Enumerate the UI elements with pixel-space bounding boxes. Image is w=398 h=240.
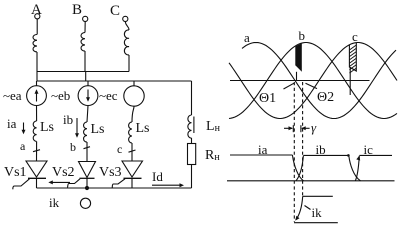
- wire Ls to node a: [36, 142, 38, 162]
- source ea: [27, 86, 47, 106]
- svg-text:b: b: [299, 28, 306, 43]
- svg-text:Ls: Ls: [136, 121, 150, 136]
- wire C terminal to coil: [125, 22, 129, 31]
- dashed line right: [302, 82, 304, 196]
- ib falling: [349, 155, 361, 180]
- current ib top: [303, 154, 348, 156]
- wire Ls to node c: [131, 143, 133, 161]
- current ia top: [230, 154, 292, 156]
- svg-text:γ: γ: [311, 120, 317, 135]
- ik leader: [305, 206, 311, 210]
- current baseline: [227, 180, 395, 182]
- gate Vs1: [13, 179, 30, 190]
- svg-text:ib: ib: [316, 142, 326, 157]
- inductor Ls phase b: [84, 122, 87, 142]
- svg-text:Id: Id: [152, 169, 163, 184]
- node b tick: [84, 147, 91, 149]
- wire A coil to bus: [36, 52, 38, 81]
- resistor Rh: [188, 144, 196, 165]
- svg-text:ic: ic: [364, 142, 374, 157]
- ib rising: [296, 156, 303, 181]
- gamma dimension right: [300, 125, 302, 132]
- wire C coil to bus: [128, 55, 130, 72]
- leader theta1: [284, 83, 295, 89]
- node a tick: [33, 150, 40, 152]
- svg-text:Vs1: Vs1: [4, 165, 27, 180]
- line below hatch: [349, 67, 351, 95]
- svg-text:ib: ib: [63, 112, 73, 127]
- arrow ik left: [50, 181, 70, 183]
- terminal B: [83, 16, 88, 21]
- source ec: [124, 86, 144, 106]
- inductor Ls phase c: [129, 122, 132, 143]
- wire ec to Ls: [132, 106, 134, 122]
- current ic top: [359, 154, 392, 156]
- inductor phase B: [81, 33, 85, 52]
- svg-text:Ls: Ls: [40, 120, 54, 135]
- sine wave ea: [242, 43, 396, 119]
- gamma dimension left: [284, 127, 292, 129]
- svg-text:a: a: [20, 139, 26, 153]
- svg-text:ik: ik: [49, 195, 60, 210]
- svg-text:Vs3: Vs3: [99, 165, 122, 180]
- svg-text:~eb: ~eb: [51, 88, 70, 103]
- thyristor Vs2: [79, 162, 96, 178]
- svg-text:c: c: [117, 142, 122, 156]
- line below black area: [296, 72, 298, 81]
- lower bus to load: [37, 80, 192, 82]
- neutral O: [80, 198, 90, 208]
- wire eb to Ls: [87, 106, 88, 123]
- svg-text:~ec: ~ec: [99, 88, 118, 103]
- upper bus: [37, 71, 129, 73]
- svg-text:~ea: ~ea: [3, 88, 22, 103]
- stub to source ec: [133, 81, 135, 86]
- svg-text:c: c: [352, 29, 358, 44]
- gate Vs3: [112, 179, 125, 188]
- ik baseline: [294, 222, 338, 224]
- wire Lh to Rh: [191, 138, 193, 144]
- wire B coil to bus: [84, 51, 86, 72]
- wave axis: [230, 80, 370, 82]
- wire ea to Ls: [36, 106, 38, 122]
- ic rising: [355, 156, 359, 181]
- thyristor Vs3: [122, 161, 143, 177]
- stub to source eb: [87, 81, 89, 86]
- svg-text:a: a: [244, 30, 250, 45]
- inductor phase A: [33, 35, 37, 52]
- ia falling: [292, 155, 303, 181]
- svg-text:C: C: [110, 3, 120, 19]
- arrow ia down: [23, 123, 25, 133]
- wire Ls to node b: [86, 142, 88, 162]
- source eb: [78, 86, 98, 106]
- svg-text:Θ2: Θ2: [317, 90, 334, 105]
- terminal C: [123, 16, 128, 21]
- inductor phase C: [124, 30, 129, 55]
- svg-text:b: b: [70, 140, 76, 154]
- svg-text:ia: ia: [258, 142, 268, 157]
- node c tick: [129, 150, 136, 152]
- ik top line: [303, 195, 333, 197]
- load branch wire: [191, 81, 193, 115]
- svg-text:B: B: [72, 2, 82, 18]
- svg-text:Θ1: Θ1: [259, 91, 276, 106]
- terminal A: [35, 14, 40, 19]
- inductor Lh: [188, 115, 192, 138]
- cathode bus: [37, 187, 192, 189]
- commutation area black: [295, 43, 302, 71]
- junction dot: [85, 186, 89, 190]
- svg-text:Vs2: Vs2: [52, 165, 75, 180]
- end dot ib: [347, 154, 350, 157]
- svg-text:ia: ia: [7, 116, 17, 131]
- svg-text:Ls: Ls: [91, 122, 105, 137]
- bus connector: [85, 72, 87, 82]
- ik curve: [296, 196, 303, 220]
- inductor Ls phase a: [33, 121, 36, 141]
- svg-text:ik: ik: [312, 205, 323, 220]
- arrow Id right: [152, 184, 182, 186]
- arrow ib down: [76, 118, 78, 136]
- wire B terminal to coil: [84, 22, 86, 33]
- stub to source ea: [36, 81, 38, 86]
- dashed line left: [293, 82, 295, 222]
- sine wave eb: [229, 43, 397, 119]
- sine wave ec: [229, 43, 397, 119]
- wire A terminal to coil: [36, 19, 38, 35]
- leader theta2: [306, 83, 318, 88]
- wire Rh to bus: [191, 165, 193, 189]
- gate Vs2: [68, 179, 81, 188]
- commutation area hatched: [349, 45, 356, 73]
- thyristor Vs1: [26, 161, 47, 177]
- core bar: [193, 117, 195, 134]
